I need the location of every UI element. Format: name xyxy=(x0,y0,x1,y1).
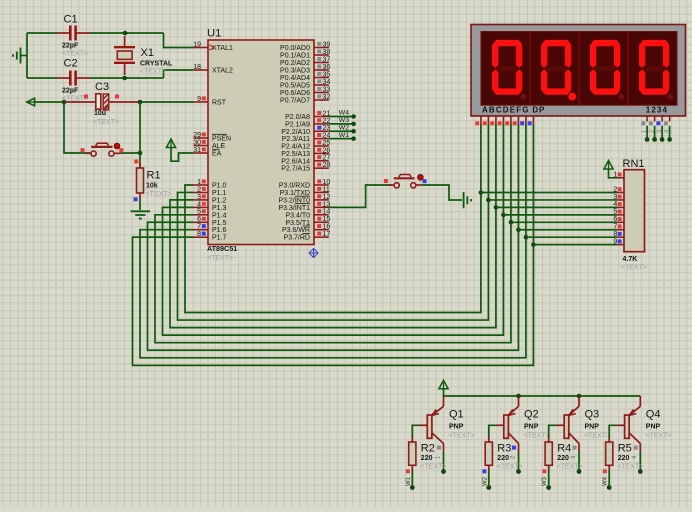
U1 pin 27 P2.6/A14 xyxy=(281,155,330,166)
wire ground stub xyxy=(21,55,27,57)
U1 pin 5 P1.4 xyxy=(194,209,227,220)
7-segment display DS1 (4 digit) xyxy=(471,25,686,117)
svg-text:P0.7/AD7: P0.7/AD7 xyxy=(280,98,310,105)
power terminal (RN1 pin 1) xyxy=(604,161,613,170)
svg-text:C1: C1 xyxy=(64,14,78,26)
display pin E xyxy=(505,116,511,125)
wire segment F to P1.5 xyxy=(148,124,519,350)
svg-text:C3: C3 xyxy=(95,81,109,93)
svg-text:XTAL1: XTAL1 xyxy=(212,45,233,52)
U1 pin 4 P1.3 xyxy=(194,201,227,212)
node Q4 collector end xyxy=(638,469,643,474)
svg-text:<TEXT>: <TEXT> xyxy=(621,265,647,272)
display pin digit 1 xyxy=(641,116,648,133)
wire digit 3 down xyxy=(661,126,663,140)
node digit 4 end xyxy=(667,137,672,142)
svg-text:29: 29 xyxy=(193,132,201,139)
svg-text:R2: R2 xyxy=(421,442,435,454)
U1 pin 35 P0.4/AD4 xyxy=(280,71,330,82)
wire Q1 collector down xyxy=(443,452,445,472)
ground (below R1) xyxy=(131,211,151,218)
svg-text:P2.4/A12: P2.4/A12 xyxy=(281,144,310,151)
U1 pin 32 P0.7/AD7 xyxy=(280,94,330,105)
RN1 pin 2 xyxy=(613,186,624,193)
U1 pin 28 P2.7/A15 xyxy=(281,162,330,173)
svg-text:W1: W1 xyxy=(339,132,349,139)
svg-text:PNP: PNP xyxy=(449,424,464,431)
svg-text:31: 31 xyxy=(193,147,201,154)
svg-text:EA: EA xyxy=(212,151,222,158)
svg-text:U1: U1 xyxy=(207,28,221,40)
wire C1/C2 left trunk xyxy=(26,33,28,78)
junction RST net right xyxy=(138,100,143,105)
U1 pin 2 P1.1 xyxy=(194,186,227,197)
svg-text:P1.1: P1.1 xyxy=(212,190,227,197)
push button (INT1) xyxy=(384,175,427,188)
node origin marker (blue crosshair) xyxy=(309,249,318,258)
resistor R1 (10k) xyxy=(134,153,172,210)
wire segment D to P1.3 xyxy=(163,124,504,335)
svg-text:11: 11 xyxy=(323,186,330,193)
power terminal (EA) xyxy=(166,139,175,148)
wire digit 4 down xyxy=(669,126,671,140)
ground (left, rotated) xyxy=(13,48,21,64)
svg-text:P3.4/T0: P3.4/T0 xyxy=(285,212,310,219)
svg-text:Q2: Q2 xyxy=(524,409,539,421)
svg-text:26: 26 xyxy=(323,147,331,154)
svg-text:<TEXT>: <TEXT> xyxy=(207,255,233,262)
RN1 pin 1 xyxy=(613,172,624,179)
resistor R5 (220) xyxy=(603,437,643,473)
wire trunk to C1 xyxy=(27,32,57,34)
svg-text:W2: W2 xyxy=(339,124,349,131)
node W1 end xyxy=(351,136,356,141)
node Q2 collector end xyxy=(516,469,521,474)
wire Q1 base to R2 xyxy=(412,425,419,437)
RN1 pin 4 xyxy=(613,201,624,208)
resistor R4 (220) xyxy=(542,437,582,473)
resistor network RN1 (4.7K) xyxy=(621,158,647,272)
push button (reset) xyxy=(81,143,124,156)
junction segment col 8 / RN1 pin 9 xyxy=(531,242,536,247)
node W3 end xyxy=(351,122,356,127)
svg-text:AT89C51: AT89C51 xyxy=(207,244,237,253)
svg-text:P0.0/AD0: P0.0/AD0 xyxy=(280,45,310,52)
svg-text:25: 25 xyxy=(323,140,331,147)
wire trunk to C2 xyxy=(27,77,57,79)
junction C1/X1 top xyxy=(123,31,128,36)
wire net W3 xyxy=(329,123,354,125)
U1 pin 37 P0.2/AD2 xyxy=(280,56,330,67)
U1 pin 15 P3.5/T1 xyxy=(285,216,330,227)
U1 pin 30 ALE xyxy=(193,139,225,150)
svg-text:1234: 1234 xyxy=(646,106,668,115)
RN1 pin 8 xyxy=(613,231,624,238)
svg-text:<TEXT>: <TEXT> xyxy=(524,433,550,440)
wire Q3 base to R4 xyxy=(549,425,557,437)
svg-text:W1: W1 xyxy=(406,476,412,486)
wire segment G to P1.6 xyxy=(140,124,526,358)
U1 pin 8 P1.7 xyxy=(194,231,227,242)
svg-text:P1.2: P1.2 xyxy=(212,197,227,204)
svg-text:PNP: PNP xyxy=(585,424,600,431)
svg-text:<TEXT>: <TEXT> xyxy=(140,68,166,75)
svg-text:16: 16 xyxy=(323,224,331,231)
svg-text:DP: DP xyxy=(532,106,545,115)
svg-text:Q1: Q1 xyxy=(449,409,464,421)
ground (rotated right) xyxy=(464,192,471,208)
svg-text:9: 9 xyxy=(197,96,201,103)
svg-text:<TEXT>: <TEXT> xyxy=(617,464,643,471)
display pin F xyxy=(513,116,519,125)
svg-text:220: 220 xyxy=(557,455,569,462)
RN1 pin 5 xyxy=(613,209,624,216)
U1 pin 13 P3.3/INT1 xyxy=(278,201,330,212)
svg-text:P2.0/A8: P2.0/A8 xyxy=(285,114,310,121)
wire power to EA pin xyxy=(171,148,194,162)
svg-text:220: 220 xyxy=(497,455,509,462)
RN1 pin 7 xyxy=(613,224,624,231)
svg-text:8: 8 xyxy=(197,231,201,238)
wire digit 1 down xyxy=(646,126,648,140)
display pin digit 2 xyxy=(649,116,656,133)
wire to XTAL2 pin xyxy=(164,70,194,78)
U1 pin 19 XTAL1 xyxy=(193,41,233,52)
resistor R2 (220) xyxy=(406,437,446,473)
capacitor C2 xyxy=(57,58,91,103)
display pin G xyxy=(520,116,526,125)
wire segment col to RN1 pin 8 xyxy=(526,236,617,238)
junction C2/X1 bottom xyxy=(122,76,127,81)
U1 pin 31 EA xyxy=(193,147,221,158)
svg-text:R4: R4 xyxy=(557,442,571,454)
svg-text:PNP: PNP xyxy=(524,424,539,431)
node W4 end xyxy=(351,114,356,119)
wire digit 2 down xyxy=(654,126,656,140)
capacitor C3 (10u electrolytic) xyxy=(64,81,140,126)
svg-text:10: 10 xyxy=(323,179,331,186)
svg-text:<TEXT>: <TEXT> xyxy=(93,119,119,126)
svg-text:P0.3/AD3: P0.3/AD3 xyxy=(280,68,310,75)
junction segment col 3 / RN1 pin 4 xyxy=(494,205,499,210)
svg-text:P1.4: P1.4 xyxy=(212,212,227,219)
U1 pin 33 P0.6/AD6 xyxy=(280,86,330,97)
svg-text:10k: 10k xyxy=(146,183,158,190)
svg-text:W3: W3 xyxy=(339,117,349,124)
svg-text:12: 12 xyxy=(323,194,331,201)
svg-text:1: 1 xyxy=(613,172,617,179)
node W4 end xyxy=(607,485,612,490)
RN1 pin 3 xyxy=(613,194,624,201)
7-seg digit 2 showing 0 xyxy=(541,40,576,101)
svg-text:7: 7 xyxy=(197,224,201,231)
wire segment col to RN1 pin 9 xyxy=(533,244,617,246)
svg-text:R3: R3 xyxy=(497,442,511,454)
U1 pin 23 P2.2/A10 xyxy=(281,125,330,136)
wire R4 to net W3 xyxy=(548,470,550,488)
svg-text:Q4: Q4 xyxy=(646,409,661,421)
junction segment col 2 / RN1 pin 3 xyxy=(486,198,491,203)
svg-text:10u: 10u xyxy=(94,110,106,117)
svg-text:X1: X1 xyxy=(141,47,154,59)
svg-text:5: 5 xyxy=(197,209,201,216)
wire arrow to C3 net xyxy=(35,101,64,103)
svg-text:6: 6 xyxy=(197,216,201,223)
wire R5 to net W4 xyxy=(608,470,610,488)
wire emitter rail xyxy=(444,389,641,396)
wire net W4 xyxy=(329,116,354,118)
wire segment E to P1.4 xyxy=(155,124,511,343)
svg-text:<TEXT>: <TEXT> xyxy=(146,191,172,198)
wire C1 to XTAL1 net xyxy=(90,32,164,34)
wire segment col to RN1 pin 4 xyxy=(496,206,617,208)
U1 pin 34 P0.5/AD5 xyxy=(280,79,330,90)
display pin digit 4 xyxy=(664,116,671,133)
svg-text:220: 220 xyxy=(618,455,630,462)
svg-text:14: 14 xyxy=(323,209,331,216)
svg-text:35: 35 xyxy=(323,71,331,78)
7-seg digit 1 showing 0 xyxy=(492,40,526,100)
svg-text:4.7K: 4.7K xyxy=(623,256,638,263)
U1 pin 26 P2.5/A13 xyxy=(281,147,330,158)
wire R3 to net W2 xyxy=(488,470,490,488)
svg-text:P3.3/INT1: P3.3/INT1 xyxy=(278,205,310,212)
node Q3 collector end xyxy=(577,469,582,474)
U1 pin 1 P1.0 xyxy=(194,179,227,190)
display pin C xyxy=(490,116,496,125)
svg-text:<TEXT>: <TEXT> xyxy=(584,433,610,440)
U1 pin 6 P1.5 xyxy=(194,216,227,227)
svg-text:P0.4/AD4: P0.4/AD4 xyxy=(280,75,310,82)
wire net W2 xyxy=(329,130,354,132)
svg-text:<TEXT>: <TEXT> xyxy=(420,464,446,471)
wire R2 to net W1 xyxy=(411,470,413,488)
svg-text:CRYSTAL: CRYSTAL xyxy=(140,60,173,67)
svg-text:P2.1/A9: P2.1/A9 xyxy=(285,121,310,128)
transistor Q4 (PNP) xyxy=(617,396,672,459)
U1 XTAL1 clock marker xyxy=(209,45,214,50)
svg-text:PSEN: PSEN xyxy=(212,136,231,143)
U1 pin 10 P3.0/RXD xyxy=(279,179,331,190)
junction segment col 5 / RN1 pin 6 xyxy=(509,220,514,225)
svg-text:34: 34 xyxy=(323,79,331,86)
wire segment col to RN1 pin 6 xyxy=(511,221,617,223)
U1 pin 29 PSEN xyxy=(193,132,231,143)
RN1 pin 6 xyxy=(613,216,624,223)
op-amp U1 AT89C51 microcontroller body xyxy=(207,28,314,262)
junction segment col 6 / RN1 pin 7 xyxy=(516,227,521,232)
svg-text:C2: C2 xyxy=(64,58,78,70)
wire button1 to R1 xyxy=(121,152,140,154)
svg-text:P0.2/AD2: P0.2/AD2 xyxy=(280,60,310,67)
svg-text:W4: W4 xyxy=(339,110,349,117)
wire Q2 collector down xyxy=(518,452,520,472)
node W1 end xyxy=(410,485,415,490)
junction segment col 1 / RN1 pin 2 xyxy=(479,190,484,195)
svg-text:W2: W2 xyxy=(482,476,488,486)
node W3 end xyxy=(546,485,551,490)
svg-text:220: 220 xyxy=(421,455,433,462)
U1 pin 39 P0.0/AD0 xyxy=(280,41,330,52)
display pin B xyxy=(483,116,489,125)
svg-text:17: 17 xyxy=(323,231,331,238)
svg-text:32: 32 xyxy=(323,94,331,101)
U1 pin 3 P1.2 xyxy=(194,194,227,205)
U1 pin 12 P3.2/INT0 xyxy=(278,194,330,205)
capacitor C1 xyxy=(57,14,91,58)
U1 pin 18 XTAL2 xyxy=(193,64,233,75)
7-seg digit 4 showing 0 xyxy=(639,40,673,100)
svg-text:22pF: 22pF xyxy=(62,88,79,95)
wire to XTAL1 pin xyxy=(164,33,194,48)
wire Q2 base to R3 xyxy=(489,425,496,437)
U1 pin 16 P3.6/WR xyxy=(282,224,330,235)
power arrow (left-pointing terminal) xyxy=(27,98,35,106)
svg-text:RST: RST xyxy=(212,100,227,107)
7-seg digit 3 showing 0 xyxy=(590,40,624,100)
node W2 end xyxy=(351,129,356,134)
wire segment C to P1.2 xyxy=(170,124,496,328)
resistor R3 (220) xyxy=(482,437,522,473)
node digit 3 end xyxy=(660,137,665,142)
node digit 1 end xyxy=(645,137,650,142)
svg-text:P3.7/RD: P3.7/RD xyxy=(284,235,310,242)
svg-text:<TEXT>: <TEXT> xyxy=(62,50,88,57)
svg-text:2: 2 xyxy=(197,186,201,193)
display pin A xyxy=(475,116,481,125)
svg-text:P2.6/A14: P2.6/A14 xyxy=(281,158,310,165)
svg-text:22pF: 22pF xyxy=(62,43,79,50)
U1 pin 36 P0.3/AD3 xyxy=(280,64,330,75)
svg-text:ABCDEFG: ABCDEFG xyxy=(482,106,530,115)
svg-text:P0.6/AD6: P0.6/AD6 xyxy=(280,90,310,97)
crystal X1 xyxy=(114,36,173,75)
svg-text:P3.0/RXD: P3.0/RXD xyxy=(279,183,310,190)
svg-text:<TEXT>: <TEXT> xyxy=(449,433,475,440)
wire segment DP to P1.7 xyxy=(133,124,534,365)
U1 pin 25 P2.4/A12 xyxy=(281,140,330,151)
wire net W1 xyxy=(329,138,354,140)
svg-text:28: 28 xyxy=(323,162,331,169)
transistor Q3 (PNP) xyxy=(556,396,610,459)
wire Q4 collector down xyxy=(639,452,641,472)
svg-text:W4: W4 xyxy=(603,476,609,486)
U1 pin 21 P2.0/A8 xyxy=(285,110,330,121)
svg-text:18: 18 xyxy=(193,64,201,71)
U1 pin 22 P2.1/A9 xyxy=(285,118,330,129)
U1 pin 9 RST xyxy=(194,96,227,107)
svg-text:P1.3: P1.3 xyxy=(212,205,227,212)
svg-text:19: 19 xyxy=(193,41,201,48)
svg-text:W3: W3 xyxy=(542,476,548,486)
wire power to RN1 pin1 xyxy=(609,169,618,178)
transistor Q2 (PNP) xyxy=(496,396,550,459)
svg-text:P2.3/A11: P2.3/A11 xyxy=(282,136,310,143)
svg-text:R5: R5 xyxy=(618,442,632,454)
U1 pin 38 P0.1/AD1 xyxy=(280,49,330,60)
svg-text:Q3: Q3 xyxy=(585,409,600,421)
wire C3 to RST pin xyxy=(140,101,194,103)
power terminal (emitter rail) xyxy=(439,380,448,389)
svg-text:P2.7/A15: P2.7/A15 xyxy=(281,166,310,173)
svg-text:P2.2/A10: P2.2/A10 xyxy=(281,129,310,136)
wire segment col to RN1 pin 5 xyxy=(503,214,617,216)
RN1 pin 9 xyxy=(613,238,624,245)
wire segment col to RN1 pin 7 xyxy=(518,229,617,231)
svg-text:33: 33 xyxy=(323,86,331,93)
wire P3.3 to button 2 xyxy=(329,185,392,207)
junction RST net left xyxy=(62,100,67,105)
svg-text:R1: R1 xyxy=(147,170,161,182)
svg-text:RN1: RN1 xyxy=(623,158,645,170)
svg-text:<TEXT>: <TEXT> xyxy=(645,433,671,440)
U1 pin 24 P2.3/A11 xyxy=(282,133,331,144)
wire Q4 base to R5 xyxy=(609,425,616,437)
wire C2 to XTAL2 net xyxy=(90,77,164,79)
svg-text:P0.5/AD5: P0.5/AD5 xyxy=(280,83,310,90)
junction segment col 4 / RN1 pin 5 xyxy=(501,213,506,218)
svg-text:39: 39 xyxy=(323,41,331,48)
junction segment col 7 / RN1 pin 8 xyxy=(524,235,529,240)
junction R1 top xyxy=(138,151,143,156)
svg-text:P1.6: P1.6 xyxy=(212,227,227,234)
svg-text:37: 37 xyxy=(323,56,331,63)
display pin digit 3 xyxy=(656,116,663,133)
svg-text:P1.5: P1.5 xyxy=(212,220,227,227)
U1 pin 17 P3.7/RD xyxy=(284,231,331,242)
wire button 2 to ground xyxy=(422,185,462,200)
U1 pin 11 P3.1/TXD xyxy=(280,186,330,197)
svg-text:P2.5/A13: P2.5/A13 xyxy=(281,151,310,158)
wire segment col to RN1 pin 2 xyxy=(481,192,617,194)
svg-text:15: 15 xyxy=(323,216,331,223)
node W2 end xyxy=(486,485,491,490)
svg-text:38: 38 xyxy=(323,49,331,56)
wire junction down to button 1 xyxy=(64,102,90,153)
wire Q3 collector down xyxy=(578,452,580,472)
svg-text:1: 1 xyxy=(197,179,201,186)
svg-text:<TEXT>: <TEXT> xyxy=(557,464,583,471)
wire segment B to P1.1 xyxy=(178,124,489,320)
svg-text:P1.7: P1.7 xyxy=(212,235,227,242)
transistor Q1 (PNP) xyxy=(419,396,474,459)
svg-text:36: 36 xyxy=(323,64,331,71)
node digit 2 end xyxy=(652,137,657,142)
junction rail Q3 xyxy=(577,394,582,399)
svg-text:3: 3 xyxy=(197,194,201,201)
svg-text:XTAL2: XTAL2 xyxy=(212,68,233,75)
display pin DP xyxy=(528,116,534,125)
svg-text:27: 27 xyxy=(323,155,331,162)
display pin D xyxy=(498,116,504,125)
node Q1 collector end xyxy=(441,469,446,474)
wire RST net down to button xyxy=(139,102,141,153)
svg-text:<TEXT>: <TEXT> xyxy=(497,464,523,471)
svg-text:30: 30 xyxy=(193,139,201,146)
junction rail Q2 xyxy=(516,394,521,399)
svg-text:P1.0: P1.0 xyxy=(212,183,227,190)
svg-text:4: 4 xyxy=(197,201,201,208)
wire segment A to P1.0 xyxy=(185,124,481,313)
svg-text:P0.1/AD1: P0.1/AD1 xyxy=(280,53,310,60)
wire segment col to RN1 pin 3 xyxy=(488,199,617,201)
U1 pin 14 P3.4/T0 xyxy=(285,209,330,220)
svg-text:PNP: PNP xyxy=(646,424,661,431)
U1 pin 7 P1.6 xyxy=(194,224,227,235)
